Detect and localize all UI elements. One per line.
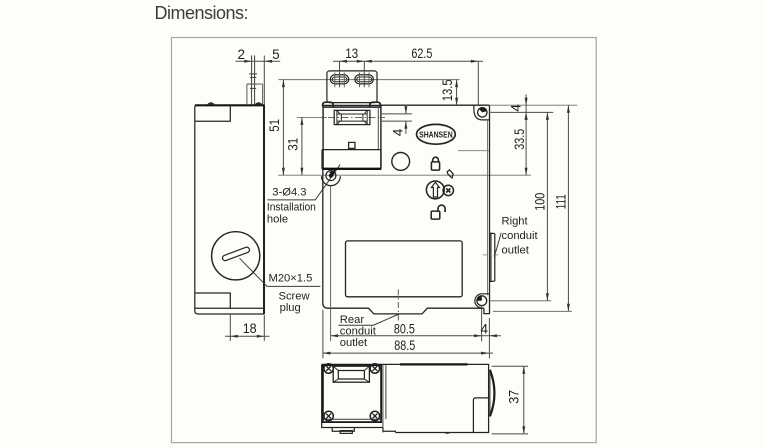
svg-text:Installation: Installation <box>267 202 316 214</box>
dimension 4 top right <box>491 95 554 113</box>
bottom view screw top-left <box>324 364 333 373</box>
svg-text:conduit: conduit <box>502 230 539 242</box>
dimension 13.5 <box>456 80 458 106</box>
dimension 100 <box>546 112 548 300</box>
side view body outline <box>195 105 265 314</box>
bottom view actuator boss bevels <box>333 366 369 382</box>
extension line 111 bottom <box>493 310 572 312</box>
right conduit bump centerline <box>483 254 499 256</box>
bottom view head square <box>323 365 381 422</box>
svg-text:13: 13 <box>345 46 358 61</box>
side view top screw bump right <box>255 103 262 105</box>
svg-text:51: 51 <box>267 119 282 132</box>
bottom view screw bottom-left <box>324 411 333 420</box>
head slot dash-dot centerline <box>328 116 385 118</box>
svg-text:outlet: outlet <box>502 245 530 257</box>
svg-text:31: 31 <box>285 138 300 151</box>
svg-text:M20×1.5: M20×1.5 <box>269 273 313 285</box>
plain circle icon <box>392 153 410 171</box>
bottom view partition lines <box>383 364 386 432</box>
top-right screw tab <box>474 105 490 120</box>
unlock button icon <box>426 181 444 199</box>
bracket slot left inner <box>332 77 347 82</box>
svg-text:33.5: 33.5 <box>512 129 527 150</box>
bottom view screw top-right <box>370 364 379 373</box>
svg-text:88.5: 88.5 <box>394 338 415 353</box>
head roller slot caps <box>337 110 367 124</box>
body side parting line <box>458 150 489 152</box>
svg-text:100: 100 <box>533 193 548 211</box>
head roller slot inner <box>337 114 367 121</box>
bracket slot right outer <box>355 75 373 84</box>
body inner right line <box>487 121 489 296</box>
svg-text:18: 18 <box>243 321 257 336</box>
side view actuator shaft <box>248 55 258 104</box>
body bottom edge with conduit trapezoid <box>323 169 484 314</box>
svg-text:hole: hole <box>267 213 288 225</box>
head lower block thick base <box>322 168 381 170</box>
dimension 51 <box>282 80 284 176</box>
frame border <box>172 38 597 443</box>
head roller slot outer <box>334 110 370 124</box>
label 3-04.3 installation hole with leader <box>267 165 340 200</box>
svg-text:37: 37 <box>506 390 521 404</box>
svg-text:5: 5 <box>272 47 280 62</box>
body cutout window <box>346 241 463 297</box>
head small window <box>349 142 355 148</box>
bottom view small bump <box>444 433 450 434</box>
body outline top and right <box>381 105 490 313</box>
dimension 33.5 <box>525 112 527 175</box>
bottom view actuator boss inner <box>338 371 364 380</box>
label rear conduit outlet with leader <box>338 315 398 326</box>
side view top screw bump left <box>208 103 215 105</box>
dimension 80.5 <box>323 306 501 359</box>
bracket slot right inner <box>357 77 372 82</box>
body inner left line / 80.5 extension <box>330 186 332 341</box>
label M20x1.5 screw plug with leader <box>240 258 321 286</box>
screw plug circle <box>212 232 260 280</box>
rear outlet dash centerline <box>397 290 399 323</box>
extension line 100 bottom <box>490 300 551 302</box>
reference line through installation screw center <box>278 174 531 176</box>
label right conduit outlet with leader <box>494 233 501 257</box>
dimension 18 <box>225 315 270 341</box>
svg-text:Right: Right <box>502 216 529 228</box>
closed padlock icon <box>431 162 439 170</box>
dimension 37 <box>492 366 528 434</box>
pen mark icon <box>447 170 453 178</box>
dimension 2 <box>236 56 281 105</box>
svg-text:4: 4 <box>391 128 406 136</box>
svg-text:4: 4 <box>509 104 524 112</box>
head upper block <box>323 105 381 168</box>
screw plug slot <box>222 246 250 261</box>
svg-text:2: 2 <box>238 47 246 62</box>
dimension 4 bottom right <box>489 334 497 337</box>
bracket slot left outer <box>330 75 348 84</box>
side view bracket plate seen edge-on <box>247 84 263 104</box>
head inner right line <box>377 107 379 149</box>
bottom view screw bottom-right <box>370 411 379 420</box>
mounting bracket <box>327 71 377 103</box>
svg-text:111: 111 <box>554 194 569 209</box>
svg-text:outlet: outlet <box>340 337 368 349</box>
top-right screw <box>478 108 487 117</box>
open padlock icon <box>431 211 440 219</box>
dimension 111 <box>567 105 569 311</box>
svg-text:80.5: 80.5 <box>394 321 415 336</box>
svg-text:62.5: 62.5 <box>411 46 432 61</box>
bottom view right conduit arc <box>489 370 491 417</box>
svg-text:3-Ø4.3: 3-Ø4.3 <box>272 186 306 198</box>
head ear left <box>323 102 333 107</box>
right conduit outlet bump <box>490 233 495 281</box>
head lower block <box>322 150 381 169</box>
body top edge extension to 111 <box>490 104 578 106</box>
bottom-right screw <box>477 296 487 306</box>
head ear right <box>370 102 380 107</box>
bottom view outline <box>322 364 489 432</box>
svg-text:13.5: 13.5 <box>440 79 455 101</box>
svg-text:Rear: Rear <box>340 314 365 326</box>
svg-text:plug: plug <box>280 302 301 314</box>
dimension 31 <box>301 117 303 175</box>
dimension 13 and 62.5 line <box>333 61 483 105</box>
side view bottom-left step <box>195 293 231 308</box>
SHANSEN logo <box>417 124 456 144</box>
dimension 4 head slot <box>382 105 412 135</box>
svg-text:SHANSEN: SHANSEN <box>419 130 453 139</box>
reference line head slot center left <box>297 116 327 118</box>
head roller slot bevels <box>337 110 367 124</box>
head top rim line <box>323 104 382 106</box>
installation screw tab arc <box>322 176 341 185</box>
installation hole screw <box>326 171 336 181</box>
svg-text:4: 4 <box>481 322 489 337</box>
bottom view top thick cover edge <box>400 363 467 365</box>
star circle icon <box>443 185 453 195</box>
bottom view right pocket <box>473 398 488 433</box>
svg-text:Screw: Screw <box>279 291 311 303</box>
side view top-left step <box>195 106 231 122</box>
bottom view small dark tab <box>340 431 352 434</box>
dimension 88.5 <box>323 352 493 354</box>
reference line through bracket hole centers <box>278 79 459 81</box>
bottom view actuator boss outer <box>333 366 369 382</box>
bottom view head square inner bottom line <box>323 418 381 420</box>
bottom view foot tab <box>332 428 354 432</box>
bracket slot center ticks <box>335 73 369 88</box>
bottom-right screw tab <box>475 294 490 308</box>
